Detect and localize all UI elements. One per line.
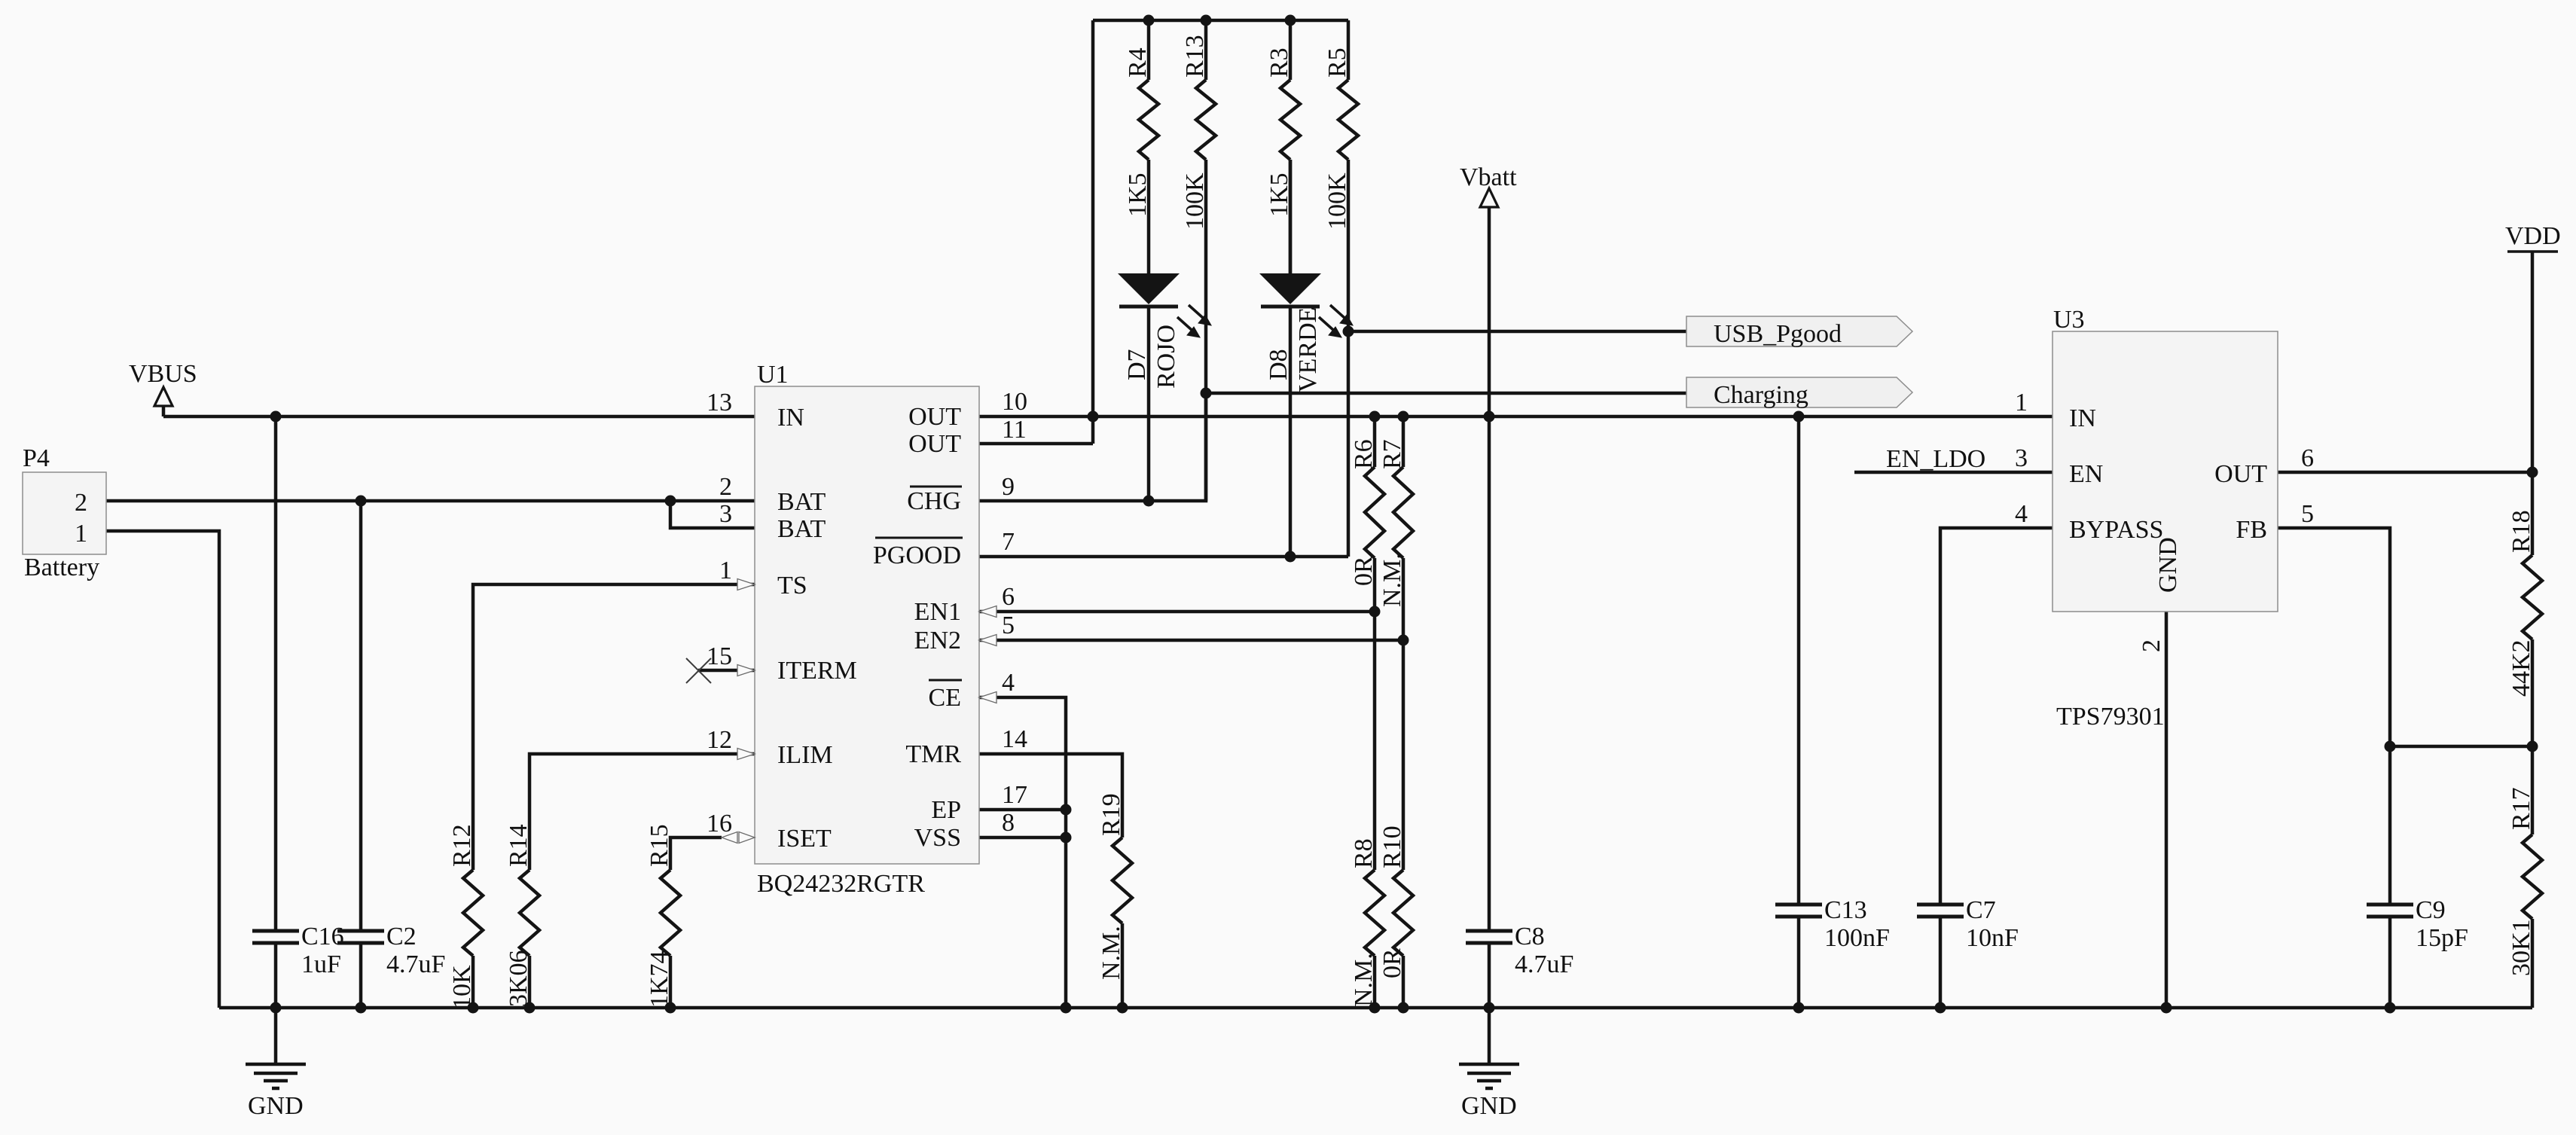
svg-text:R3: R3 [1265, 47, 1293, 78]
svg-text:3K06: 3K06 [505, 950, 533, 1007]
svg-text:5: 5 [2301, 500, 2314, 528]
svg-text:0R: 0R [1378, 948, 1406, 978]
resistor R19 [1097, 793, 1132, 980]
resistor R13 [1181, 35, 1216, 230]
svg-text:9: 9 [1002, 473, 1015, 501]
wire R13 column [1204, 20, 1208, 80]
svg-text:VBUS: VBUS [129, 360, 197, 388]
wire R15 bottom lead [669, 956, 673, 1008]
wire ISET pin16 to R15 [670, 838, 722, 870]
svg-text:2: 2 [75, 489, 87, 517]
wire ground rail [219, 1006, 2532, 1010]
svg-text:12: 12 [707, 726, 732, 754]
LED D7 [1118, 160, 1211, 389]
wire Vbatt to C8 [1488, 416, 1491, 931]
svg-text:VERDE: VERDE [1294, 307, 1322, 392]
resistor R14 [505, 824, 539, 1007]
svg-text:BAT: BAT [777, 488, 826, 516]
wire R6 column OUT to EN1 [1373, 416, 1377, 467]
wire R14 bottom lead [528, 956, 532, 1008]
svg-text:10: 10 [1002, 388, 1027, 416]
wire vertical branch x1451 top rail to pin11 [1091, 20, 1095, 444]
wire ITERM stub [698, 669, 755, 673]
svg-text:EN: EN [2069, 460, 2103, 488]
svg-text:VSS: VSS [914, 824, 961, 852]
svg-text:4.7uF: 4.7uF [1515, 950, 1573, 978]
svg-text:VDD: VDD [2505, 222, 2561, 250]
svg-text:R15: R15 [646, 824, 673, 867]
wire C16 branch [274, 416, 278, 931]
wire R10 column EN2 to ground [1402, 640, 1406, 870]
svg-text:0R: 0R [1350, 556, 1378, 586]
svg-text:N.M.: N.M. [1097, 926, 1125, 980]
wire OUT rail U1 to U3 IN [979, 415, 2053, 419]
wire D7 cathode to CHG [1147, 307, 1151, 501]
resistor R12 [448, 824, 483, 1009]
svg-text:1: 1 [75, 520, 87, 548]
svg-text:17: 17 [1002, 781, 1027, 809]
svg-text:100K: 100K [1181, 172, 1209, 230]
svg-text:R14: R14 [505, 824, 533, 867]
wire R5 column top [1347, 20, 1351, 80]
svg-text:U1: U1 [757, 361, 789, 389]
resistor R17 [2507, 787, 2542, 976]
svg-text:EN2: EN2 [914, 627, 961, 654]
wire USB_Pgood net [1348, 330, 1686, 334]
power symbol VBUS [129, 360, 197, 416]
U1 pin numbers [707, 388, 1027, 838]
wire PGOOD pin7 to R5/D8 [979, 555, 1348, 559]
svg-text:5: 5 [1002, 612, 1015, 639]
capacitor C8 [1466, 923, 1573, 978]
svg-text:44K2: 44K2 [2507, 639, 2535, 697]
svg-text:14: 14 [1002, 725, 1027, 753]
wire R17 leads [2531, 746, 2535, 834]
svg-text:N.M.: N.M. [1378, 553, 1406, 607]
svg-text:OUT: OUT [908, 430, 961, 458]
wire BYPASS to C7 [1940, 528, 2053, 905]
svg-text:CHG: CHG [907, 487, 961, 515]
svg-text:R5: R5 [1323, 47, 1351, 78]
wire D8 cathode to PGOOD [1289, 307, 1293, 557]
wire CHG pin9 to R13/D7 [979, 393, 1206, 501]
wire R13 bottom lead to CHG [1204, 160, 1208, 501]
svg-text:TMR: TMR [905, 740, 961, 768]
ground symbol GND left [246, 1008, 306, 1120]
svg-text:P4: P4 [23, 444, 50, 472]
wire R8 column EN1 to ground [1373, 612, 1377, 870]
capacitor C13 [1775, 896, 1890, 952]
svg-text:R10: R10 [1378, 825, 1406, 868]
svg-text:C13: C13 [1824, 896, 1867, 924]
svg-text:TPS79301: TPS79301 [2056, 703, 2165, 731]
svg-text:R19: R19 [1097, 793, 1125, 836]
power symbol VDD [2505, 222, 2561, 472]
wire U3 FB pin5 to divider [2278, 528, 2390, 746]
resistor R4 [1124, 47, 1158, 217]
svg-text:U3: U3 [2053, 306, 2085, 334]
svg-text:D7: D7 [1123, 349, 1151, 380]
svg-text:BYPASS: BYPASS [2069, 516, 2163, 544]
capacitor C7 [1917, 896, 2019, 952]
wire TMR pin14 to R19 [979, 754, 1122, 838]
svg-text:10nF: 10nF [1966, 924, 2019, 952]
svg-text:1uF: 1uF [301, 950, 341, 978]
svg-text:R6: R6 [1350, 439, 1378, 469]
svg-text:R18: R18 [2507, 510, 2535, 553]
wire EP stub [979, 808, 1066, 812]
wire R7 column OUT to EN2 [1402, 416, 1406, 467]
resistor R8 [1350, 838, 1384, 1007]
svg-text:PGOOD: PGOOD [873, 542, 961, 569]
wire R3 top lead [1289, 20, 1293, 80]
svg-text:ROJO: ROJO [1152, 325, 1180, 389]
svg-text:TS: TS [777, 572, 807, 600]
svg-text:2: 2 [719, 473, 732, 501]
svg-text:Battery: Battery [24, 554, 99, 581]
svg-text:2: 2 [2138, 639, 2165, 652]
svg-text:4: 4 [1002, 669, 1015, 697]
capacitor C9 [2367, 896, 2468, 952]
wire top rail for LED resistors [1093, 19, 1348, 23]
svg-text:Charging: Charging [1714, 381, 1808, 409]
svg-text:15pF: 15pF [2416, 924, 2468, 952]
svg-text:15: 15 [707, 642, 732, 670]
wire C9 branch [2388, 746, 2392, 905]
svg-text:7: 7 [1002, 528, 1015, 556]
ground rail GND stem left [274, 1008, 278, 1009]
power symbol Vbatt [1460, 163, 1517, 416]
svg-text:ITERM: ITERM [777, 657, 857, 685]
wire FB link to R17/R18 node [2390, 745, 2532, 749]
svg-text:EN_LDO: EN_LDO [1886, 445, 1985, 473]
wire U1 OUT pin11 [979, 442, 1093, 446]
resistor R10 [1378, 825, 1413, 978]
svg-text:30K1: 30K1 [2507, 919, 2535, 976]
svg-text:R13: R13 [1181, 35, 1209, 78]
svg-text:11: 11 [1002, 416, 1027, 444]
svg-text:EN1: EN1 [914, 598, 961, 626]
resistor R15 [646, 824, 680, 1008]
svg-text:100nF: 100nF [1824, 924, 1890, 952]
svg-text:R12: R12 [448, 824, 476, 867]
wire U3 OUT pin6 to VDD [2278, 471, 2532, 474]
U3 pin numbers [2015, 389, 2314, 652]
no-connect X at ITERM [686, 658, 711, 683]
resistor R6 [1350, 439, 1384, 586]
svg-text:3: 3 [719, 500, 732, 528]
svg-text:3: 3 [2015, 444, 2028, 472]
svg-text:1: 1 [719, 557, 732, 584]
wire EN2 pin5 to R7/R10 [979, 639, 1403, 642]
wire EN_LDO stub [1854, 471, 2053, 474]
svg-text:BAT: BAT [777, 515, 826, 543]
svg-text:ISET: ISET [777, 825, 832, 853]
wire R18 leads [2531, 472, 2535, 555]
svg-text:1K74: 1K74 [646, 950, 673, 1008]
wire BAT net P4.2 to U1 BAT [106, 499, 755, 503]
svg-text:R7: R7 [1378, 439, 1406, 469]
svg-text:4: 4 [2015, 500, 2028, 528]
svg-text:GND: GND [1461, 1092, 1517, 1120]
wire BAT jog to pin3 [670, 501, 755, 528]
connector P4 [23, 444, 106, 581]
resistor R7 [1378, 439, 1413, 607]
svg-text:C7: C7 [1966, 896, 1996, 924]
wire R5 bottom to PGOOD [1347, 160, 1351, 557]
U1 ISET bidirectional arrow pin16 [722, 832, 755, 844]
svg-text:13: 13 [707, 389, 732, 416]
wire EN1 pin6 to R6/R8 [979, 610, 1375, 614]
svg-text:N.M.: N.M. [1350, 953, 1378, 1007]
wire C13 branch [1797, 416, 1801, 905]
net flag USB_Pgood [1686, 316, 1912, 348]
capacitor C16 [252, 923, 344, 978]
resistor R18 [2507, 510, 2542, 697]
ground rail GND stem right [1488, 1008, 1491, 1009]
wire R3 to D8 [1289, 160, 1293, 275]
svg-text:6: 6 [1002, 583, 1015, 611]
svg-text:8: 8 [1002, 809, 1015, 837]
svg-text:C2: C2 [386, 923, 417, 950]
wire C2 branch [359, 501, 363, 931]
wire VBUS rail to U1 IN [163, 415, 755, 419]
svg-text:IN: IN [2069, 404, 2096, 432]
svg-text:GND: GND [248, 1092, 304, 1120]
wire VSS stub [979, 836, 1066, 840]
U1 input pin arrows [737, 579, 997, 760]
svg-text:16: 16 [707, 810, 732, 838]
svg-text:C16: C16 [301, 923, 344, 950]
wire U3 GND pin2 stub [2165, 612, 2169, 1008]
svg-text:R17: R17 [2507, 787, 2535, 830]
wire CE pin4 down to ground rail [979, 697, 1066, 1008]
svg-text:IN: IN [777, 404, 804, 432]
svg-text:R4: R4 [1124, 47, 1152, 78]
svg-text:BQ24232RGTR: BQ24232RGTR [757, 870, 925, 898]
svg-text:100K: 100K [1323, 172, 1351, 230]
svg-text:R8: R8 [1350, 838, 1378, 868]
wire ILIM pin12 to R14 [530, 754, 755, 870]
svg-text:OUT: OUT [2214, 460, 2267, 488]
svg-text:OUT: OUT [908, 403, 961, 431]
wire R19 bottom lead [1121, 923, 1125, 1008]
wire Charging net [1206, 392, 1686, 395]
wire TS pin1 to R12 [473, 584, 755, 870]
resistor R3 [1265, 47, 1300, 217]
capacitor C2 [337, 923, 445, 978]
LED D8 [1259, 160, 1353, 392]
svg-text:ILIM: ILIM [777, 741, 833, 769]
wire R12 bottom lead [472, 956, 475, 1008]
svg-text:CE: CE [929, 684, 961, 712]
op-amp U1 BQ24232RGTR charger IC [755, 361, 979, 898]
svg-text:D8: D8 [1265, 349, 1293, 380]
svg-text:C9: C9 [2416, 896, 2446, 924]
svg-text:FB: FB [2236, 516, 2267, 544]
svg-text:USB_Pgood: USB_Pgood [1714, 320, 1842, 348]
net flag Charging [1686, 377, 1912, 409]
svg-text:GND: GND [2154, 537, 2182, 593]
svg-text:EP: EP [931, 796, 961, 824]
svg-text:C8: C8 [1515, 923, 1545, 950]
wire R4 top lead [1147, 20, 1151, 80]
ground symbol GND right [1459, 1008, 1519, 1120]
svg-text:1: 1 [2015, 389, 2028, 416]
wire P4 pin1 to ground rail [106, 531, 219, 1008]
resistor R5 [1323, 47, 1358, 230]
op-amp U3 TPS79301 LDO [2053, 306, 2278, 731]
svg-text:6: 6 [2301, 444, 2314, 472]
svg-text:4.7uF: 4.7uF [386, 950, 445, 978]
